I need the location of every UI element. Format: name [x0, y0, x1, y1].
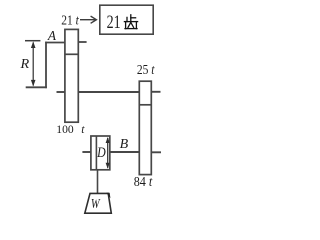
label R	[19, 56, 29, 71]
svg-text:21: 21	[107, 11, 121, 32]
gear 21t/100t rect (shaft I)	[65, 29, 78, 122]
svg-text:100 t: 100 t	[56, 123, 85, 136]
svg-text:B: B	[120, 137, 129, 152]
label 21 t (top gear teeth count)	[61, 13, 79, 28]
gear 25t/84t rect (shaft II)	[139, 81, 151, 174]
drum D outer rect	[91, 136, 110, 170]
svg-text:21 t: 21 t	[61, 13, 79, 28]
label D	[96, 144, 106, 160]
svg-text:A: A	[47, 28, 57, 43]
svg-text:R: R	[19, 56, 29, 71]
drum inner flange line	[95, 136, 97, 170]
shaft B right stub	[151, 151, 161, 153]
middle shaft left stub	[57, 91, 65, 93]
svg-text:W: W	[91, 196, 101, 212]
shaft A left stub	[45, 42, 65, 44]
glyph 齿 (drawn strokes)	[124, 15, 137, 29]
drum diameter arrow	[106, 137, 110, 169]
middle shaft main run	[78, 91, 139, 93]
R dimension top tick	[25, 40, 40, 42]
divider between 25t and 84t	[139, 104, 151, 106]
divider between 21t and 100t	[65, 53, 78, 55]
callout box 21齿	[100, 5, 153, 34]
svg-text:25 t: 25 t	[137, 62, 155, 77]
text 21 in box	[107, 11, 121, 32]
arrow to callout box	[80, 16, 96, 23]
middle shaft right stub	[151, 91, 160, 93]
label W	[91, 196, 101, 212]
shaft A right stub	[78, 41, 87, 43]
R dimension arrow	[31, 41, 36, 86]
label 84 t	[134, 174, 153, 189]
weight W trapezoid	[85, 193, 112, 213]
rope	[97, 170, 99, 194]
crank bottom line	[26, 86, 47, 88]
shaft B main run	[110, 151, 140, 153]
shaft B left stub	[82, 151, 91, 153]
label 25 t	[137, 62, 155, 77]
svg-text:D: D	[96, 144, 106, 160]
node A label	[47, 28, 57, 43]
label B	[120, 137, 129, 152]
svg-text:84 t: 84 t	[134, 174, 153, 189]
crank vertical	[45, 42, 47, 89]
weight corner fold	[106, 193, 110, 198]
